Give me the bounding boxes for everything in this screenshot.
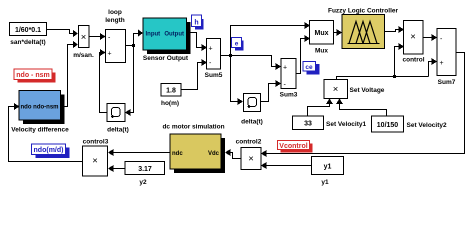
wire set voltage out main run <box>337 47 433 80</box>
svg-text:Input: Input <box>146 32 161 38</box>
label Vcontrol <box>278 141 313 153</box>
block constant 33 <box>293 116 367 130</box>
wire FLC out to control in1 <box>385 30 399 32</box>
wire control out to sum7 minus <box>423 37 432 39</box>
block product control2 <box>236 139 262 170</box>
wire 10/150 up to set voltage <box>340 103 387 116</box>
block constant 1.8 <box>161 84 181 108</box>
wire loop sum out branch <box>126 34 138 113</box>
svg-text:control3: control3 <box>83 139 109 146</box>
wire sum5 out to junction and branches <box>221 26 305 102</box>
wire delta1 out to loop sum plus <box>100 53 108 113</box>
block product m/san <box>73 26 94 60</box>
icon To Workspace ce <box>303 62 320 75</box>
svg-text:3.17: 3.17 <box>138 166 152 173</box>
svg-text:×: × <box>81 32 87 43</box>
block y1 <box>312 157 344 187</box>
svg-text:ndo(m/d): ndo(m/d) <box>34 147 64 154</box>
svg-text:loop: loop <box>108 9 122 16</box>
svg-text:+: + <box>283 65 287 72</box>
block sensor output subsystem <box>143 18 191 62</box>
block velocity difference <box>11 91 69 134</box>
svg-text:+: + <box>108 51 112 58</box>
wire delta2 out to sum3 minus <box>261 84 276 102</box>
wire 3.17 to control3 in2 <box>113 168 125 170</box>
junction dots <box>132 44 396 78</box>
wire control2 out to dc motor <box>230 153 241 159</box>
svg-text:y2: y2 <box>139 179 147 186</box>
block mux <box>310 21 334 55</box>
svg-text:Vcontrol: Vcontrol <box>279 143 307 150</box>
block product control3 <box>83 139 109 177</box>
svg-text:ndo - nsm: ndo - nsm <box>16 72 49 79</box>
svg-text:10/150: 10/150 <box>377 122 399 129</box>
block sum5 <box>205 39 223 80</box>
label ndo - nsm <box>14 69 56 83</box>
svg-text:ho(m): ho(m) <box>161 100 179 107</box>
wire control3 out to velocity difference <box>9 107 83 162</box>
svg-text:ndc: ndc <box>172 151 183 157</box>
block constant 10/150 <box>372 116 447 132</box>
block sum3 <box>280 59 298 99</box>
svg-text:Output: Output <box>164 32 184 38</box>
svg-text:Sum7: Sum7 <box>438 79 456 86</box>
svg-text:y1: y1 <box>321 179 329 186</box>
svg-text:control: control <box>402 57 424 64</box>
block fuzzy logic controller <box>328 8 399 49</box>
wire mux out to FLC <box>334 32 337 34</box>
svg-text:×: × <box>248 154 254 165</box>
svg-text:delta(t): delta(t) <box>107 127 129 134</box>
block delta(t) 2 <box>241 94 263 126</box>
svg-text:Sum5: Sum5 <box>205 72 223 79</box>
svg-text:Mux: Mux <box>315 48 328 55</box>
svg-text:Velocity difference: Velocity difference <box>11 127 69 134</box>
block sum7 <box>437 29 456 87</box>
svg-text:y1: y1 <box>324 164 332 171</box>
svg-text:×: × <box>410 32 416 43</box>
block product set voltage <box>324 80 385 99</box>
svg-text:m/san.: m/san. <box>73 52 94 59</box>
svg-text:Set Velocity1: Set Velocity1 <box>326 121 366 128</box>
port arrows left-pointing <box>14 103 267 172</box>
wire velocity difference feedback riser <box>61 45 73 107</box>
svg-text:Mux: Mux <box>315 30 329 37</box>
svg-text:Set Velocity2: Set Velocity2 <box>407 122 447 129</box>
svg-text:ce: ce <box>305 64 313 71</box>
svg-text:Fuzzy Logic Controller: Fuzzy Logic Controller <box>328 8 399 15</box>
wire y1 to control2 in2 <box>266 165 311 167</box>
svg-text:×: × <box>333 84 339 95</box>
block constant 3.17 <box>125 162 165 187</box>
wire 33 up to set voltage <box>308 103 330 116</box>
svg-text:dc motor simulation: dc motor simulation <box>162 124 224 131</box>
wire m/san out to loop sum minus <box>89 36 100 38</box>
svg-text:×: × <box>92 156 98 167</box>
svg-text:1.8: 1.8 <box>166 88 176 95</box>
svg-text:Sensor Output: Sensor Output <box>143 55 189 62</box>
wire sum3 out to mux in2 <box>296 39 305 74</box>
block delta(t) 1 <box>107 104 129 134</box>
svg-text:1/60*0.1: 1/60*0.1 <box>15 27 41 34</box>
svg-text:san*delta(t): san*delta(t) <box>10 39 45 46</box>
svg-text:length: length <box>105 17 125 24</box>
icon To Workspace h <box>192 15 204 30</box>
svg-text:33: 33 <box>304 121 312 128</box>
port arrows right-pointing <box>73 22 437 105</box>
wire gain to product m/san <box>47 30 73 34</box>
icon display ndo(m/d) <box>32 144 70 158</box>
port arrows up-pointing <box>326 99 343 105</box>
block dc motor simulation <box>162 124 225 174</box>
svg-text:+: + <box>209 46 213 53</box>
svg-text:Set Voltage: Set Voltage <box>350 87 385 94</box>
block gain 1/60*0.1 <box>10 23 47 47</box>
wire sensor out to sum5 plus <box>190 33 202 48</box>
svg-text:ndo ndo-nsm: ndo ndo-nsm <box>21 105 59 111</box>
wire dc motor ndc out to control3 in1 <box>113 152 170 154</box>
svg-text:Vdc: Vdc <box>208 151 220 157</box>
svg-text:Sum3: Sum3 <box>280 92 298 99</box>
svg-text:+: + <box>440 60 444 67</box>
block product control <box>402 21 424 64</box>
svg-text:delta(t): delta(t) <box>241 119 263 126</box>
wire sum7 out long feedback <box>266 53 465 154</box>
svg-text:e: e <box>235 41 239 48</box>
svg-text:h: h <box>194 20 198 27</box>
svg-text:control2: control2 <box>236 139 262 146</box>
block loop length sum <box>105 9 125 63</box>
icon To Workspace e <box>232 38 244 51</box>
wire 1.8 to sum5 minus <box>181 63 202 90</box>
